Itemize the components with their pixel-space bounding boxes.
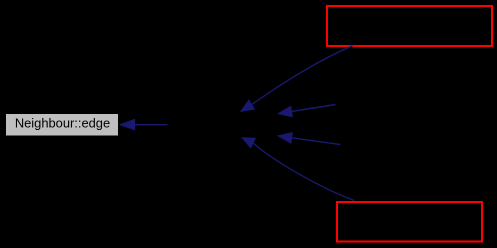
- edge hidden-A to Neighbour::edge: [120, 119, 167, 130]
- edge caller-bottom to hidden-A: [242, 138, 354, 201]
- node caller-bottom (red box, label hidden): [337, 202, 482, 242]
- svg-text:Neighbour::edge: Neighbour::edge: [15, 116, 110, 131]
- edge hidden-C2 to hidden-A: [278, 133, 340, 145]
- node Neighbour::edge (grey current node): [6, 114, 119, 137]
- edge caller-top to hidden-A: [241, 46, 353, 112]
- node caller-top (red box, label hidden): [327, 6, 492, 46]
- edge hidden-C1 to hidden-A: [278, 105, 335, 117]
